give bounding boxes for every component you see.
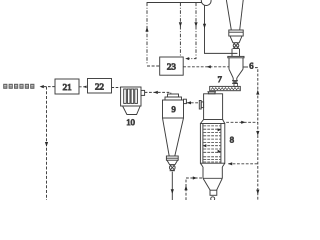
arrow left to gas outlet text: [40, 85, 44, 88]
column 8 left nozzle flange: [199, 101, 201, 110]
wire from blower down then right to vessel 6 neck (solid): [205, 5, 238, 53]
wire from unit 23 right toward vessel 6: [183, 66, 229, 68]
bowtie valve V2 under vessel 6: [232, 81, 238, 82]
svg-text:7: 7: [218, 74, 222, 84]
cone discharge hopper: [230, 36, 242, 43]
arrow up on riser x=147: [145, 27, 148, 32]
wire recycle into column y=163.8: [228, 163, 258, 165]
column 8 lower body: [202, 167, 204, 178]
filter 10 right nozzle: [141, 90, 145, 95]
rotary valve circle under column 8 (cut at bottom): [211, 197, 215, 201]
blower B1 (circle cut by top edge): [201, 0, 211, 6]
vessel 6 cone: [229, 69, 233, 78]
cyclone 9 cone: [163, 118, 170, 156]
wire cyclone inlet to column 8 top nozzle: [186, 102, 199, 104]
screw conveyor 7 housing: [210, 86, 241, 90]
unit 21 box: [55, 79, 79, 94]
wire riser from unit 23 left (dash-dot up to header): [146, 3, 148, 65]
vessel 6 top rim: [228, 56, 244, 57]
exchanger inner walls: [202, 124, 204, 164]
arrow down x=180.4: [179, 22, 182, 27]
column 8 top nozzle: [207, 91, 216, 93]
flange block onto conveyor: [234, 84, 237, 87]
text gas outlet label 气体加压外送 (simulated tiny glyph blocks): [3, 84, 34, 89]
arrow right on y=122.3: [241, 121, 245, 124]
filter 10 bottom hopper: [123, 106, 141, 115]
cyclone 9 lid inner: [168, 94, 179, 97]
column 8 lower shoulder: [200, 163, 203, 167]
neck into vessel 6: [231, 49, 233, 57]
column 8 upper body: [204, 94, 223, 120]
svg-text:22: 22: [95, 81, 104, 91]
svg-text:21: 21: [63, 82, 72, 92]
spray tower cone (cropped at top): [226, 0, 231, 30]
cyclone 9 lid outer: [165, 97, 182, 100]
vessel 6 body: [228, 58, 230, 69]
arrow up on bottom feed: [184, 185, 187, 190]
svg-text:9: 9: [172, 104, 176, 114]
cyclone 9 inlet nozzle: [184, 99, 187, 103]
wire into unit 23 left side: [147, 65, 160, 67]
svg-text:23: 23: [167, 62, 177, 72]
arrow down on riser bottom: [256, 190, 259, 195]
rotary valve V1 (circle with X): [233, 43, 239, 49]
column 8 bottom cone: [203, 178, 210, 190]
column 8 outlet box: [210, 190, 217, 195]
screw flights zigzag: [211, 88, 239, 90]
unit 23 box: [160, 57, 184, 75]
wire cyclone9 top to filter10: [145, 92, 171, 94]
arrow left on that line: [207, 65, 211, 68]
bag filter 10 body: [121, 87, 141, 106]
filter bags (4 bars): [124, 89, 127, 103]
svg-text:6: 6: [249, 60, 253, 70]
svg-text:10: 10: [126, 117, 134, 127]
cyclone 9 receiver box: [166, 156, 178, 160]
unit 22 box: [88, 79, 112, 94]
arrow left into cyclone inlet: [187, 101, 191, 104]
wire box21-box22: [79, 86, 88, 88]
wire column8 gas out right y=122.3: [226, 121, 258, 123]
arrow down on blower line: [203, 24, 206, 29]
cone receiver box: [229, 30, 243, 36]
wire cyclone 9 discharge down (solid): [171, 172, 173, 200]
wire top header line: [147, 2, 202, 4]
wire bottom feed L into column 8: [186, 178, 203, 200]
arrow right on bottom feed: [193, 176, 197, 179]
label 6 leader tick: [243, 66, 248, 68]
wire long branch down x=46.5: [46, 87, 48, 200]
svg-text:8: 8: [230, 134, 234, 144]
arrow down on discharge: [171, 189, 174, 194]
tube rows (upper bundle): [203, 126, 220, 152]
wire downcomer x=180.4 into unit 23 top: [179, 3, 181, 58]
flow direction arrows inside bundle: [218, 128, 221, 131]
arrow up on riser (to vessel 6): [256, 90, 259, 95]
vessel 6 outlet neck: [232, 78, 234, 81]
arrow left into column at y=163.8: [228, 162, 232, 165]
column 8 exchanger shell: [200, 124, 224, 164]
arrow down x=196: [194, 22, 197, 27]
arrow left into 23 top-right: [185, 57, 189, 60]
wire text-arrow to box 21: [44, 86, 55, 88]
wire box22-filter10: [112, 87, 121, 89]
arrow down on riser mid: [256, 131, 259, 136]
column 8 shoulder to wide section: [200, 120, 203, 124]
arrow left on filter line: [154, 91, 158, 94]
tube rows (lower bundle): [203, 157, 220, 162]
wire downcomer x=196 with elbow into unit 23 top-right: [188, 3, 196, 59]
cyclone 9 discharge hopper: [167, 160, 178, 164]
cyclone 9 body: [163, 100, 184, 118]
arrow left between 21 and 22: [83, 86, 86, 89]
arrow down on x=46.5: [45, 142, 48, 147]
rotary valve V3 under cyclone 9: [170, 165, 176, 171]
wire right recycle riser x=257.8: [255, 68, 258, 200]
